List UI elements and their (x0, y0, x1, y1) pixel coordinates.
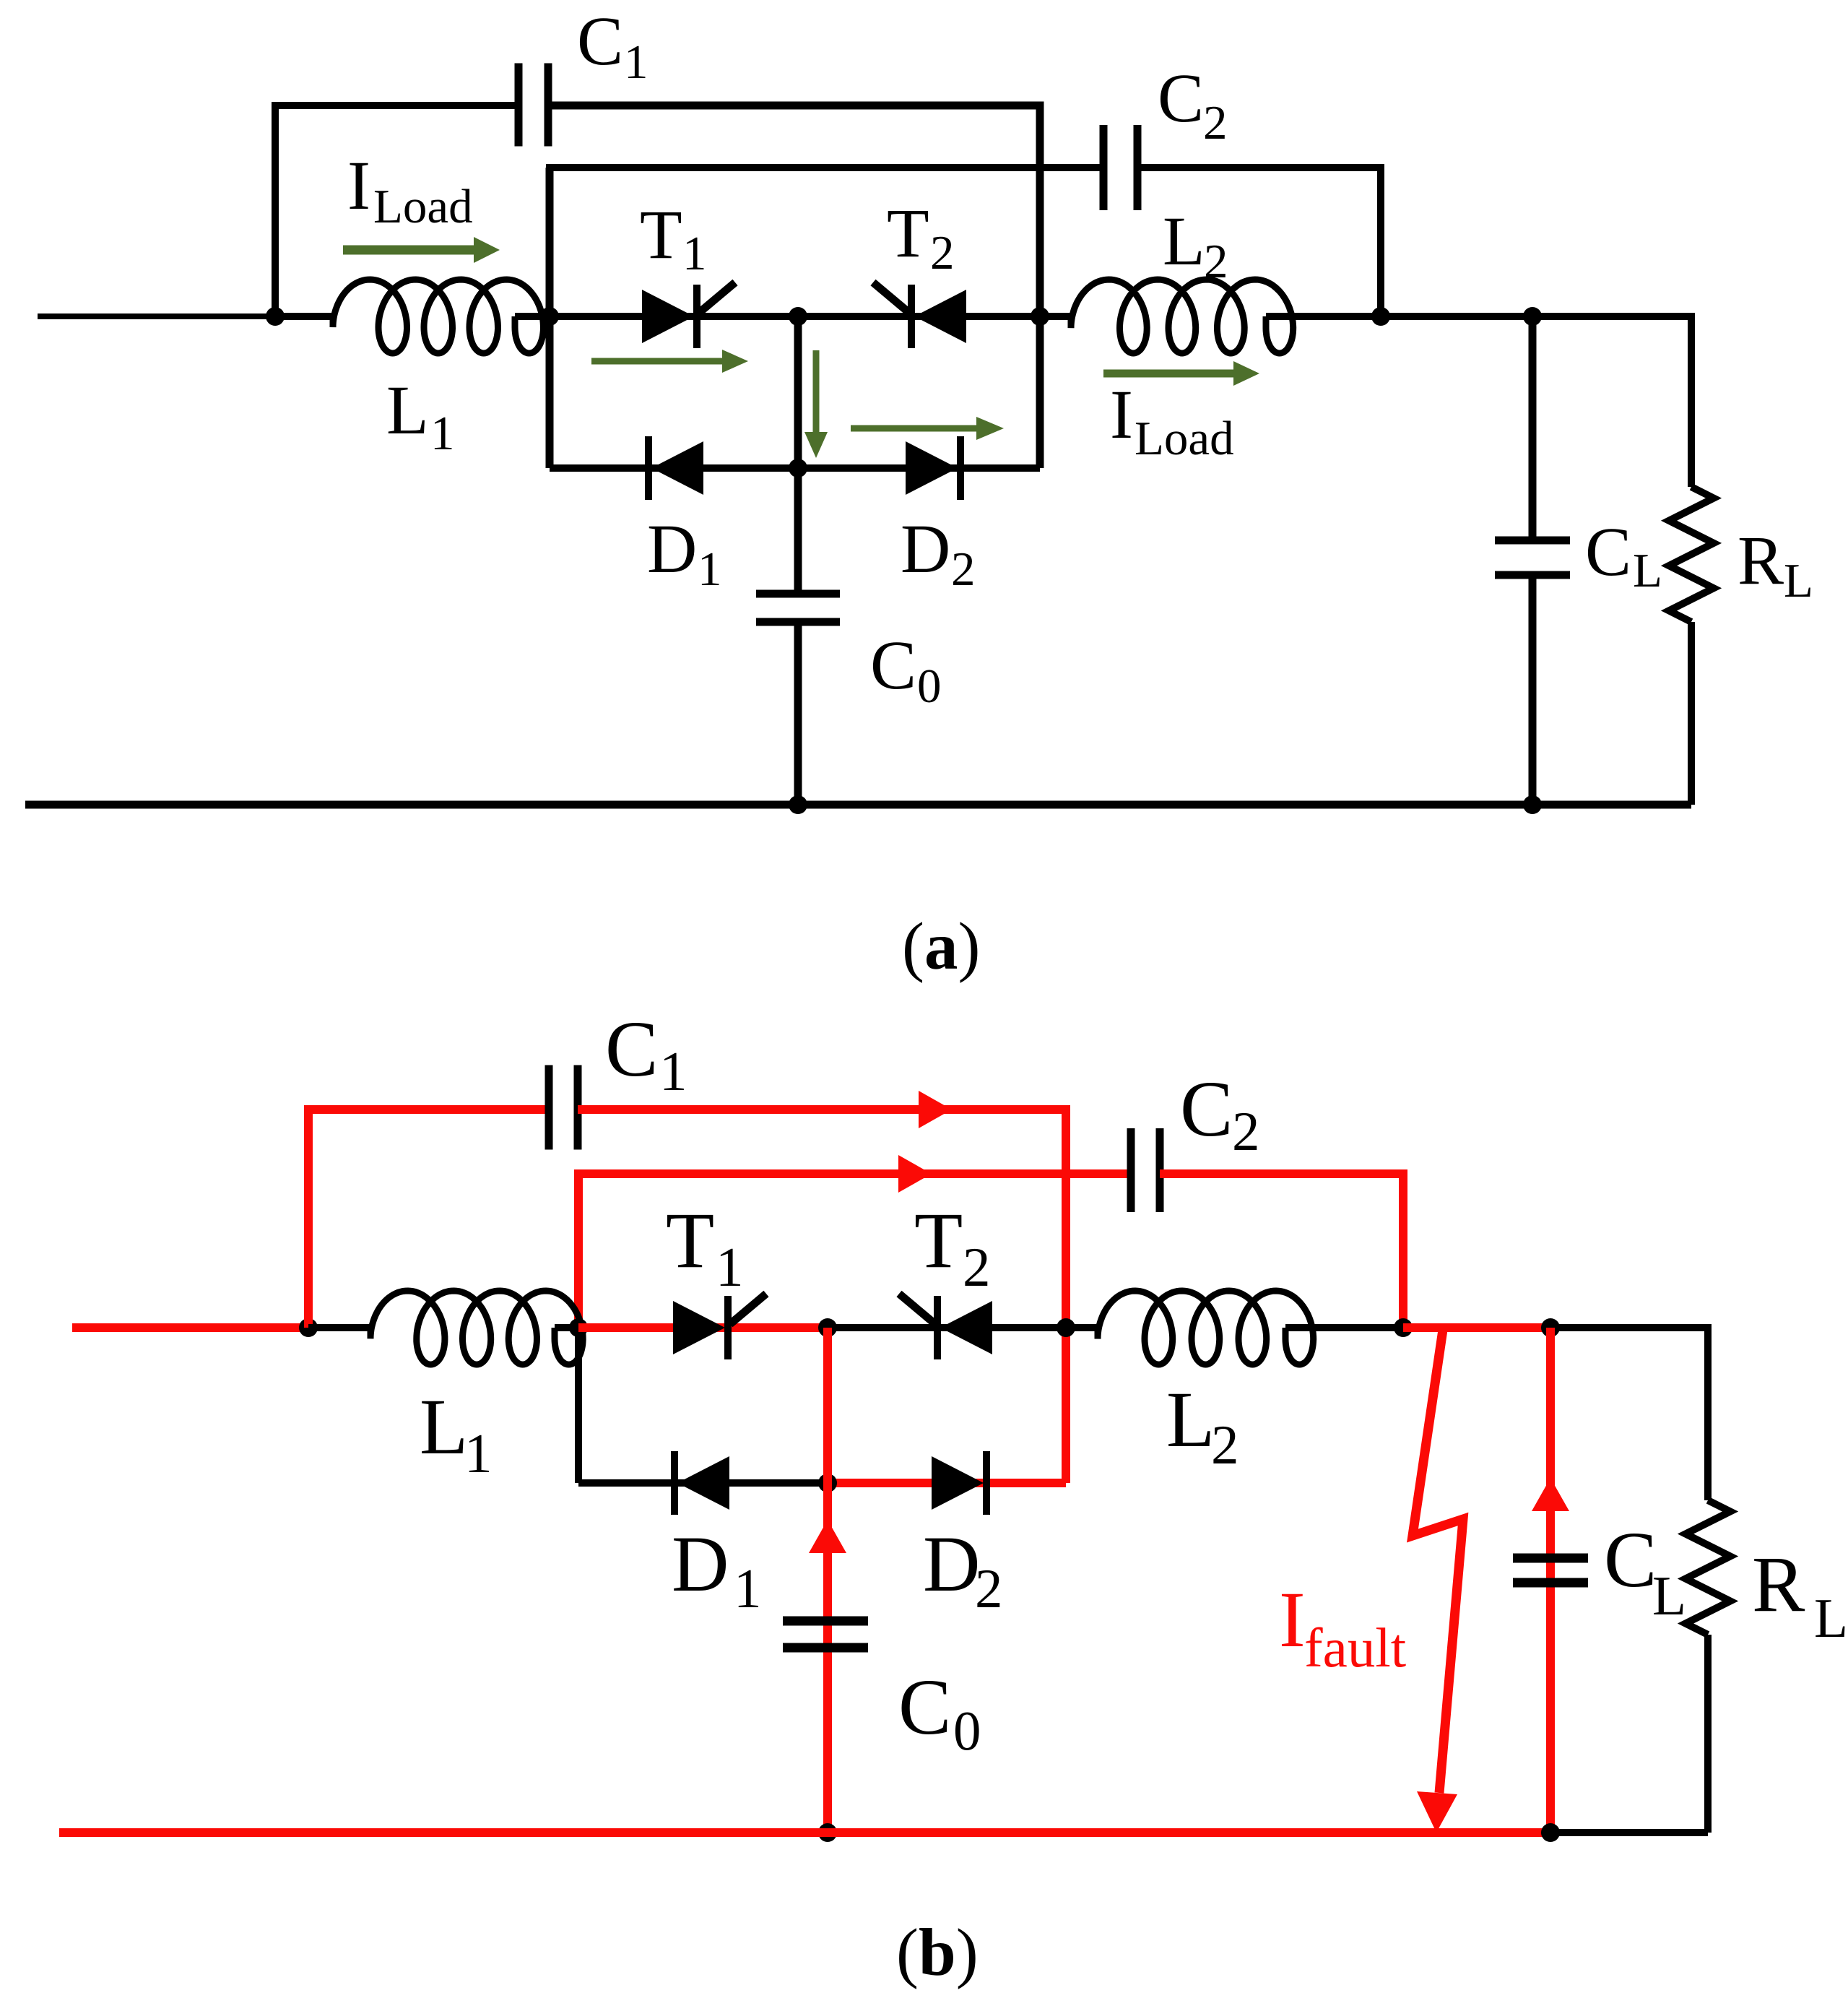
capacitor C0 (b) plates (783, 1617, 868, 1653)
wire: (b) CL branch vertical (red) (1546, 1328, 1555, 1833)
wire: (a) L1 to bridge-left node (515, 313, 578, 320)
wire: (a) L2 lead-in from bridge (1040, 313, 1071, 320)
capacitor C1 (b) plates (545, 1065, 582, 1150)
wire: (b) middle vertical T junction to bridge bottom (red) (823, 1328, 832, 1483)
thyristor T1 (b) (673, 1294, 766, 1359)
label C1 (a) (577, 2, 648, 89)
svg-text:L: L (1814, 1587, 1848, 1649)
wire: (a) left feeder segment (38, 313, 275, 319)
node: (b) bottom rail junction under CL (1541, 1823, 1560, 1842)
svg-text:L: L (1163, 202, 1205, 280)
svg-text:Load: Load (373, 180, 473, 233)
label L2 (a) (1163, 202, 1228, 288)
node: (b) junction at CL branch (1541, 1318, 1560, 1337)
svg-text:2: 2 (930, 226, 955, 280)
label C0 (a) (870, 626, 942, 713)
label C2 (a) (1158, 59, 1228, 150)
svg-text:2: 2 (1232, 1100, 1260, 1162)
label D1 (a) (647, 510, 722, 596)
wire: (b) main line T1 segment (red) (578, 1323, 828, 1332)
node: (a) bridge middle junction (789, 307, 807, 326)
wire: (a) inner C2 rail from C2 to right corner and down to node right of L2 (1137, 168, 1381, 316)
node: (a) bridge bottom middle junction (789, 459, 807, 477)
label C1 (b) (605, 1005, 687, 1102)
svg-text:T: T (887, 194, 929, 272)
wire: (b) bridge bottom rail right part (red) (828, 1479, 1066, 1487)
svg-text:L: L (1784, 554, 1813, 607)
svg-text:C: C (577, 2, 623, 79)
wire: (b) RL bottom lead (black) (1704, 1635, 1712, 1833)
label T2 (b) (914, 1196, 991, 1298)
svg-text:L: L (420, 1383, 468, 1471)
svg-text:D: D (901, 510, 950, 587)
label L2 (b) (1166, 1375, 1239, 1476)
svg-text:R: R (1738, 522, 1784, 599)
diode D2 (b) (932, 1451, 990, 1515)
label I_Load (a) right (1110, 376, 1234, 465)
node: (b) bridge bottom middle junction (818, 1474, 837, 1492)
node: (b) bottom rail junction under C0 (818, 1823, 837, 1842)
resistor RL (b) zigzag (1686, 1500, 1730, 1635)
caption (b) (896, 1916, 979, 1990)
inductor L1 (b) (370, 1291, 583, 1365)
resistor RL (a) zigzag (1669, 487, 1714, 622)
node: (b) bridge-left junction (569, 1318, 588, 1337)
wire: (a) main line across bridge (550, 313, 1040, 320)
node: (a) bottom rail junction under CL (1523, 795, 1542, 814)
svg-text:I: I (1279, 1575, 1306, 1664)
svg-text:1: 1 (430, 407, 455, 460)
wire: (a) bridge bottom rail (550, 464, 1040, 472)
wire: (a) L2 to load network and right corner down (1266, 316, 1691, 487)
wire: (b) L2 to C2 node (black) (1285, 1324, 1403, 1331)
wire: (a) CL branch upper segment (1529, 316, 1537, 537)
capacitor C2 (a) plates (1100, 125, 1142, 210)
svg-text:L: L (386, 371, 429, 449)
caption (a) (902, 909, 980, 984)
svg-text:C: C (605, 1005, 658, 1093)
svg-text:(b): (b) (896, 1916, 979, 1990)
wire: (b) inner C2 rail from C2 to right corner and down (red) (1160, 1174, 1403, 1328)
capacitor CL (a) plates (1495, 537, 1570, 579)
node A: (a) junction left of L1 (266, 307, 285, 326)
wire: (b) bridge-left vertical lower part (black) (575, 1328, 582, 1483)
svg-text:1: 1 (734, 1557, 762, 1619)
wire: (a) inductor L1 lead-in (275, 313, 333, 320)
diode D1 (b) (671, 1451, 729, 1515)
wire: (a) top C1 rail right part to bridge-right corner (548, 105, 1040, 468)
svg-text:C: C (1180, 1065, 1233, 1153)
wire: (a) CL branch lower segment (1529, 575, 1537, 805)
label CL (b) (1604, 1515, 1686, 1627)
green arrow: (a) I_Load left (343, 237, 500, 263)
label D2 (b) (923, 1520, 1003, 1619)
wire: (b) bottom rail black part (1550, 1829, 1708, 1836)
label D2 (a) (901, 510, 976, 596)
node: (a) junction at CL branch (1523, 307, 1542, 326)
svg-text:D: D (672, 1520, 729, 1608)
node B: (b) junction left of L1 (299, 1318, 318, 1337)
wire: (b) L2 lead-in (black) (1066, 1324, 1098, 1331)
green arrow: (a) I_Load right after L2 (1103, 361, 1259, 386)
svg-text:I: I (347, 147, 370, 224)
label L1 (a) (386, 371, 455, 460)
svg-text:0: 0 (917, 659, 942, 713)
node: (a) bridge-left junction (540, 307, 559, 326)
capacitor CL (b) plates (1513, 1554, 1588, 1588)
wire: (b) inner C2 rail from bridge-left to C2 (red) (574, 1169, 1131, 1178)
svg-text:1: 1 (698, 542, 722, 596)
thyristor T2 (a) (873, 282, 966, 348)
green arrow: (a) down middle branch (804, 350, 828, 458)
node: (a) bottom rail junction under C0 (789, 795, 807, 814)
svg-text:(a): (a) (902, 909, 980, 984)
svg-text:2: 2 (1204, 235, 1228, 288)
svg-text:R: R (1752, 1540, 1805, 1628)
red arrowhead on C1 rail (b) (919, 1091, 952, 1128)
node: (a) junction right of L2 with C2 branch (1371, 307, 1390, 326)
wire: (b) L1 to bridge-left node (black) (555, 1324, 578, 1331)
wire: (b) top C1 rail right part to corner (red) (578, 1110, 1066, 1483)
svg-text:Load: Load (1135, 412, 1234, 465)
node: (a) bridge-right junction (1031, 307, 1049, 326)
svg-text:1: 1 (659, 1040, 687, 1102)
label C2 (b) (1180, 1065, 1260, 1162)
capacitor C0 (a) plates (756, 590, 840, 626)
wire: (a) bottom rail (25, 801, 1691, 809)
wire: (b) bridge bottom rail left part (black) (578, 1479, 828, 1487)
label D1 (b) (672, 1520, 762, 1619)
svg-text:2: 2 (1203, 96, 1228, 150)
svg-text:L: L (1652, 1565, 1686, 1627)
label T2 (a) (887, 194, 955, 280)
label I_fault (b) (1279, 1575, 1406, 1679)
red up arrowhead on C0 branch (b) (809, 1520, 846, 1553)
capacitor C1 (a) plates (515, 64, 552, 147)
svg-text:C: C (870, 626, 916, 704)
svg-text:I: I (1110, 376, 1133, 453)
capacitor C2 (b) plates (1127, 1128, 1164, 1212)
wire: (b) inductor L1 lead-in (black) (308, 1324, 370, 1331)
svg-text:1: 1 (682, 227, 707, 280)
wire: (a) middle vertical from T junction to bottom rail through C0 (794, 316, 802, 592)
wire: (b) C0 branch vertical (red) (823, 1483, 832, 1833)
red up arrowhead on CL branch (b) (1532, 1478, 1569, 1511)
svg-text:1: 1 (624, 35, 648, 89)
svg-text:T: T (666, 1196, 714, 1284)
svg-text:2: 2 (951, 542, 976, 596)
fault lightning bolt (b) (1413, 1330, 1463, 1833)
green arrow: (a) through D2 (851, 417, 1004, 440)
svg-text:C: C (1585, 513, 1631, 590)
diode D1 (a) (645, 436, 703, 500)
label RL (b) (1752, 1540, 1848, 1649)
svg-text:C: C (1604, 1515, 1657, 1604)
svg-text:D: D (647, 510, 697, 587)
svg-text:fault: fault (1304, 1617, 1406, 1679)
wire: (b) left feeder segment (red) (72, 1323, 308, 1332)
wire: (b) main line T2 segment (black) (828, 1324, 1066, 1331)
wire: (b) main line CL node to right corner and down (black) (1550, 1328, 1708, 1500)
label I_Load (a) left (347, 147, 473, 233)
label T1 (b) (666, 1196, 744, 1298)
label T1 (a) (640, 196, 707, 280)
wire: (b) vertical from node B up to C1 rail and rail left part (red) (308, 1110, 549, 1328)
label C0 (b) (898, 1663, 981, 1762)
inductor L1 (a) (333, 280, 544, 353)
svg-text:C: C (1158, 59, 1204, 137)
svg-text:2: 2 (1211, 1414, 1239, 1476)
diode D2 (a) (906, 436, 964, 500)
svg-text:T: T (914, 1196, 963, 1284)
svg-text:C: C (898, 1663, 951, 1751)
label RL (a) (1738, 522, 1813, 607)
label CL (a) (1585, 513, 1662, 597)
wire: (b) main line to CL node (red) (1403, 1323, 1550, 1332)
svg-text:0: 0 (953, 1700, 981, 1762)
node: (b) bridge-right junction (1057, 1318, 1075, 1337)
thyristor T1 (a) (642, 282, 735, 348)
green arrow: (a) through T1 (591, 350, 748, 373)
wire: (a) inner C2 rail from bridge-left to C2 (546, 164, 1103, 171)
inductor L2 (a) (1071, 280, 1293, 353)
wire: (a) RL bottom lead (1688, 622, 1695, 805)
svg-text:L: L (1166, 1375, 1215, 1463)
thyristor T2 (b) (899, 1294, 992, 1359)
label L1 (b) (420, 1383, 493, 1484)
svg-text:1: 1 (464, 1422, 493, 1484)
inductor L2 (b) (1098, 1291, 1314, 1365)
svg-text:D: D (923, 1520, 980, 1608)
wire: (a) C0 to bottom rail (794, 622, 802, 805)
svg-text:2: 2 (963, 1236, 991, 1298)
svg-text:1: 1 (716, 1236, 744, 1298)
red arrowhead on C2 rail (b) (898, 1155, 932, 1193)
svg-text:L: L (1633, 544, 1662, 597)
wire: (a) vertical from node A up to C1 rail and rail left part (275, 105, 515, 316)
svg-text:T: T (640, 196, 682, 273)
wire: (a) bridge-left vertical (546, 168, 554, 468)
node: (b) junction right of L2 with C2 branch (1394, 1318, 1413, 1337)
wire: (b) inner C2 rail left vertical (red) (574, 1174, 583, 1328)
svg-text:2: 2 (975, 1557, 1003, 1619)
wire: (b) bottom rail red part (59, 1828, 1550, 1837)
node: (b) bridge middle junction (818, 1318, 837, 1337)
